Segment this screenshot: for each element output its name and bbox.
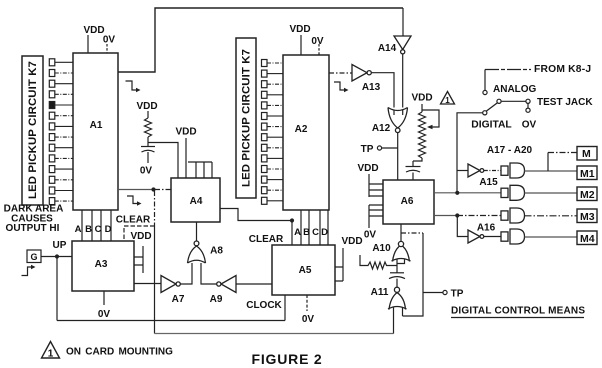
svg-text:A6: A6 [401, 196, 414, 207]
resistor R2 VDD (variable) [413, 104, 439, 161]
M3 row dash wire [457, 215, 501, 217]
A13 out wire [371, 73, 394, 115]
svg-text:B: B [85, 224, 92, 235]
svg-text:VDD: VDD [83, 25, 104, 36]
LED1 pin 8 [49, 134, 55, 141]
G2 out wire [525, 192, 578, 194]
svg-text:A13: A13 [362, 82, 381, 93]
bottom rail 1 [57, 320, 285, 322]
svg-text:C: C [312, 227, 319, 238]
M2 box [577, 187, 597, 201]
svg-text:A3: A3 [95, 259, 108, 270]
inverter A14 (points down) [394, 36, 411, 54]
svg-text:0V: 0V [364, 230, 377, 241]
A10 out wire [400, 224, 402, 242]
svg-text:ON CARD MOUNTING: ON CARD MOUNTING [66, 347, 173, 358]
G4 out wire [525, 236, 578, 238]
LED1 pin 13 [49, 187, 55, 194]
TP lower circle [443, 290, 447, 294]
test jack contact [526, 99, 530, 103]
A16 out wire [484, 236, 501, 238]
svg-text:VDD: VDD [357, 163, 378, 174]
IC A3 [72, 241, 134, 291]
LED1 pin 4 [49, 91, 55, 98]
TP lower wire [423, 292, 443, 294]
svg-text:A14: A14 [378, 43, 397, 54]
svg-text:VDD: VDD [289, 24, 310, 35]
svg-text:0V: 0V [103, 35, 116, 46]
analog contact [483, 90, 487, 94]
IC A4 [171, 178, 220, 222]
wires left section [41, 8, 403, 334]
LED2 pin 9 [262, 144, 268, 151]
M2 row wire [434, 192, 501, 194]
LED2 pin 7 [262, 123, 268, 130]
svg-text:VDD: VDD [411, 93, 432, 104]
junction dot A5 clear [290, 218, 294, 222]
LED2 pin 11 [262, 166, 268, 173]
svg-text:0V: 0V [302, 314, 315, 325]
test jack wire [501, 100, 526, 102]
G3 out wire [525, 215, 578, 217]
junction dot A1-out [151, 187, 155, 191]
svg-text:M4: M4 [580, 233, 595, 245]
wiper arrowhead [427, 125, 433, 129]
svg-text:FROM K8-J: FROM K8-J [534, 64, 591, 75]
LED1 pin 7 [49, 123, 55, 130]
inverter A16 [468, 230, 484, 243]
svg-text:A2: A2 [295, 124, 308, 135]
analog branch wire [484, 70, 486, 91]
0V dashed line to A1 [106, 44, 108, 53]
A1 ABCD lines [82, 210, 111, 241]
M branch wire [547, 153, 549, 172]
IC A1 [73, 53, 118, 210]
right rail down [403, 233, 424, 316]
LED2 pin 1 [262, 60, 268, 67]
svg-text:CLEAR: CLEAR [116, 215, 151, 226]
svg-text:OUTPUT HI: OUTPUT HI [6, 223, 60, 234]
svg-text:B: B [303, 227, 310, 238]
svg-text:VDD: VDD [130, 231, 151, 242]
svg-text:0V: 0V [98, 309, 111, 320]
LED1 pin 9 [49, 144, 55, 151]
LED2 pin 6 [262, 113, 268, 120]
svg-text:LED PICKUP CIRCUIT K7: LED PICKUP CIRCUIT K7 [27, 61, 39, 199]
warning triangle 1 [441, 92, 455, 105]
inverter A7 [161, 276, 180, 293]
NOR gate A12 (points down) [388, 108, 408, 133]
AND gate G1 [501, 163, 525, 178]
M4 box [577, 231, 597, 245]
LED2 pin 8 [262, 134, 268, 141]
M1 box [577, 166, 597, 180]
A11 input wires [394, 307, 403, 334]
svg-text:CLEAR: CLEAR [249, 234, 284, 245]
resistor R3 horizontal [360, 255, 397, 269]
svg-text:A: A [294, 227, 301, 238]
svg-text:A: A [75, 224, 82, 235]
A5 0V dashed stub [306, 295, 308, 311]
M3 row wire [434, 215, 457, 217]
A4 out wire to A5 clear [220, 209, 292, 246]
svg-text:LED PICKUP CIRCUIT K7: LED PICKUP CIRCUIT K7 [241, 49, 253, 187]
A2 ABCD lines [301, 210, 328, 245]
IC A2 [283, 55, 329, 210]
NOR gate A11 (points up) [388, 287, 407, 309]
svg-text:FIGURE 2: FIGURE 2 [252, 351, 323, 367]
AND gate G3 [501, 208, 525, 223]
rising pulse symbol near G [22, 267, 33, 276]
A6 VDD bracket [369, 174, 383, 197]
A5 VDD bracket [335, 248, 343, 281]
LED2 pin 13 [262, 187, 268, 194]
svg-text:A16: A16 [477, 223, 496, 234]
svg-text:M3: M3 [580, 211, 595, 223]
VDD line to A2 [300, 35, 302, 55]
falling pulse symbol near A13 [334, 82, 346, 90]
capacitor C3 [390, 272, 404, 274]
A9 in wire from A5 [236, 283, 272, 285]
svg-text:UP: UP [53, 240, 67, 251]
svg-text:A7: A7 [172, 294, 185, 305]
svg-text:A15: A15 [479, 177, 498, 188]
LED1 pin 1 [49, 59, 55, 66]
IC A6 [383, 180, 434, 224]
wire A2 to A13 [329, 72, 352, 74]
svg-text:M2: M2 [580, 189, 595, 201]
AND gate G2 [501, 185, 525, 200]
svg-text:TP: TP [451, 289, 464, 300]
LED2 pin 5 [262, 102, 268, 109]
AND gate G4 [501, 229, 525, 244]
capacitor C1 [141, 146, 155, 148]
LED pickup box 2 [236, 38, 256, 198]
A10 input wires [397, 259, 405, 266]
falling pulse symbol near CLEAR1 [127, 196, 139, 204]
LED1 pin 3 [49, 80, 55, 87]
0V dashed line to A2 [318, 44, 320, 55]
LED2 pin 10 [262, 155, 268, 162]
junction dot G-UP [55, 254, 59, 258]
falling pulse symbol near A1 [126, 81, 138, 90]
capacitor C2 [406, 166, 421, 168]
bottom rail 2 [155, 333, 394, 335]
svg-text:0V: 0V [311, 36, 324, 47]
LED2 pin 14 [262, 197, 268, 204]
svg-text:A11: A11 [371, 287, 389, 298]
svg-text:VDD: VDD [136, 101, 157, 112]
svg-text:1: 1 [445, 96, 450, 105]
A14 in wire [402, 8, 404, 36]
svg-text:D: D [321, 227, 328, 238]
wire A1 right to top rail [118, 8, 403, 72]
svg-text:DIGITAL CONTROL MEANS: DIGITAL CONTROL MEANS [451, 306, 585, 317]
G vertical down [56, 257, 58, 321]
LED1 pin 5 [49, 102, 55, 109]
C3 wires [396, 266, 398, 288]
TP upper wire [382, 147, 398, 149]
M3 box [577, 209, 597, 223]
digital wire [457, 113, 483, 193]
inverter A15 [468, 164, 484, 177]
svg-text:A8: A8 [210, 246, 223, 257]
inverter A13 [352, 65, 371, 82]
NOR gate A10 (points up) [392, 241, 411, 261]
A14 out wire [402, 54, 404, 115]
A3 VDD bracket [134, 246, 143, 273]
G1 out wire [525, 170, 578, 172]
dashed wire junction to A4 left [155, 189, 171, 191]
G box wire [41, 256, 72, 258]
A3 0V stub [103, 291, 105, 305]
G box [27, 250, 41, 263]
svg-text:TEST JACK: TEST JACK [537, 97, 593, 108]
LED2 pin 2 [262, 70, 268, 77]
TP upper circle [377, 146, 381, 150]
A7 out wire [180, 262, 192, 284]
IC A5 [272, 245, 335, 295]
M box [577, 147, 597, 161]
svg-text:M1: M1 [580, 168, 595, 180]
junction dot M3 row [455, 213, 459, 217]
A15 out wire [484, 170, 501, 172]
LED1 pin 12 [49, 176, 55, 183]
digital contact [483, 111, 487, 115]
LED1 pin 11 [49, 166, 55, 173]
wire A1 out to junction [118, 189, 154, 191]
clear dashed wire to A3 [124, 226, 155, 241]
NOR gate A8 (points up) [188, 241, 206, 263]
A4 VDD line [185, 138, 187, 178]
dashed vertical junction down [154, 191, 156, 226]
svg-text:M: M [582, 148, 591, 160]
switch pole contact [497, 99, 501, 103]
warning triangle 2 [42, 342, 60, 359]
A3 to A7 wire [134, 283, 161, 285]
svg-text:A12: A12 [372, 123, 391, 134]
LED1 pin 14 [49, 198, 55, 205]
C2 wires [412, 161, 414, 180]
LED2 pin 12 [262, 176, 268, 183]
junction dot M2 row [455, 191, 459, 195]
svg-text:A1: A1 [90, 120, 103, 131]
svg-text:TP: TP [361, 144, 374, 155]
resistor R1 with VDD cap to 0V (left) [141, 111, 178, 178]
A4 to A8 wire [196, 222, 198, 241]
vertical long wire to bottom rail [154, 226, 156, 334]
svg-text:CLOCK: CLOCK [246, 300, 282, 311]
switch blade [486, 103, 497, 111]
svg-text:A10: A10 [372, 243, 391, 254]
svg-text:1: 1 [48, 349, 54, 360]
svg-text:D: D [105, 224, 112, 235]
FROM K8-J wire [485, 69, 531, 71]
svg-text:ANALOG: ANALOG [493, 84, 537, 95]
svg-text:VDD: VDD [175, 127, 196, 138]
dash wire A10 to right rail [401, 232, 423, 234]
svg-text:C: C [95, 224, 102, 235]
inverter A9 [217, 276, 236, 293]
svg-text:G: G [30, 252, 37, 262]
0V jack contact [526, 108, 530, 112]
wiper loop [422, 110, 439, 127]
LED pins A1 [49, 59, 73, 205]
A16 input wire [457, 216, 468, 237]
LED2 pin 4 [262, 91, 268, 98]
svg-text:A9: A9 [210, 294, 223, 305]
svg-text:A5: A5 [299, 265, 312, 276]
svg-text:A17 - A20: A17 - A20 [487, 145, 533, 156]
LED pins A2 [262, 60, 284, 205]
VDD line to A1 [87, 35, 89, 53]
A12 out wire [397, 133, 399, 181]
clock riser [284, 295, 286, 321]
LED2 pin 3 [262, 81, 268, 88]
node wire to A4 [148, 143, 178, 179]
svg-text:A4: A4 [190, 196, 203, 207]
A15 input wire [457, 170, 468, 172]
svg-text:0V: 0V [140, 166, 153, 177]
A6 0V bracket [369, 205, 383, 228]
LED1 pin 10 [49, 155, 55, 162]
svg-text:VDD: VDD [341, 236, 362, 247]
A9 out wire [201, 262, 217, 284]
underline [451, 317, 584, 319]
LED pickup box 1 [22, 56, 43, 205]
LED1 pin 6 [49, 112, 55, 119]
LED1 pin 2 [49, 70, 55, 77]
0V jack link [527, 103, 529, 108]
svg-text:DIGITAL: DIGITAL [471, 120, 511, 131]
A4 top pin header [188, 162, 212, 178]
svg-text:OV: OV [522, 120, 537, 131]
